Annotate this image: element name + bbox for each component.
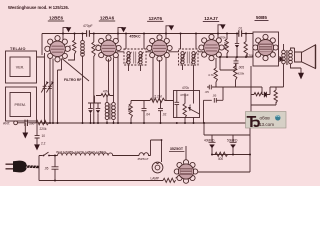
tube label 12AT6 (audio) <box>203 16 219 22</box>
electrolytic capacitor 50MFD <box>227 135 238 155</box>
resistor 470 feedback <box>274 87 277 105</box>
tube V4 audio <box>199 34 224 60</box>
label 455KC <box>129 35 141 39</box>
top B+ bus wire y=33.5 <box>42 33 253 35</box>
svg-text:TELAIO: TELAIO <box>10 47 26 51</box>
svg-text:Westinghouse mod. H 125/126.: Westinghouse mod. H 125/126. <box>8 5 69 10</box>
pushbutton block PREM <box>6 87 37 121</box>
resistor 47k osc <box>96 90 113 97</box>
svg-text:47k: 47k <box>103 90 109 94</box>
resistor 10M AVC <box>127 101 132 124</box>
svg-text:35Z5GT: 35Z5GT <box>170 147 184 151</box>
capacitor .02 <box>158 101 167 124</box>
diode plate cap <box>235 34 239 58</box>
padder capacitor 1 <box>88 103 93 123</box>
output tube box shield <box>253 32 279 66</box>
svg-text:50B5: 50B5 <box>256 15 267 20</box>
tuner block VER <box>10 57 30 77</box>
resistor lamp shunt <box>163 176 179 183</box>
svg-text:.005: .005 <box>238 66 244 70</box>
ground arrow under speaker <box>298 68 304 79</box>
capacitor .05 cathode bypass <box>205 85 212 94</box>
svg-text:10M: 10M <box>127 106 131 113</box>
tube label 12BA6 <box>99 16 115 22</box>
electrolytic capacitor 40MFD <box>204 135 216 155</box>
svg-text:470pF: 470pF <box>83 24 93 28</box>
capacitor .01 in top bus <box>238 27 243 37</box>
electrolytic rail top <box>204 123 250 135</box>
IF transformer 2 <box>179 49 199 65</box>
resistor 100k V4 screen <box>223 34 228 58</box>
filter resistor 400 <box>212 152 250 161</box>
tube label 12BE6 <box>48 16 64 22</box>
svg-text:обов: обов <box>260 116 271 121</box>
svg-text:200: 200 <box>29 122 34 126</box>
heater ballast winding <box>58 153 140 156</box>
capacitor 470pF in top bus <box>83 24 93 37</box>
wire V3 cathode drops <box>153 58 166 101</box>
oscillator coil <box>105 96 115 124</box>
capacitor .04 <box>142 101 151 124</box>
B minus vertical wire <box>249 127 251 172</box>
wire gang vertical left <box>44 53 46 123</box>
svg-text:820k: 820k <box>238 72 245 76</box>
svg-text:.05: .05 <box>205 90 210 94</box>
resistor 470k V4 plate <box>244 34 254 59</box>
B+ arrow at tube V4 <box>218 24 226 39</box>
wire V5 box to bus <box>250 66 252 112</box>
tube V3 12AT6 <box>147 35 172 61</box>
svg-text:455KC: 455KC <box>129 35 141 39</box>
svg-text:400: 400 <box>218 157 224 161</box>
svg-text:40MFD: 40MFD <box>204 138 215 142</box>
svg-text:ANT.: ANT. <box>3 122 10 126</box>
capacitor 470pF grid <box>175 91 189 118</box>
mains junction vertical <box>38 156 40 181</box>
svg-text:13.com: 13.com <box>259 122 274 127</box>
svg-text:.05: .05 <box>212 94 217 98</box>
resistor 4.7k plate V1 <box>68 34 76 61</box>
volume control box <box>174 86 200 118</box>
cathode rail wire y87 <box>212 87 262 95</box>
line capacitor .05 <box>44 156 59 181</box>
svg-text:PREM.: PREM. <box>15 103 26 107</box>
svg-text:2.2M: 2.2M <box>154 94 162 98</box>
rectifier heater wire <box>195 171 251 173</box>
wire heater to lamp <box>151 140 162 162</box>
svg-text:470pF: 470pF <box>180 93 189 97</box>
coupling capacitor .02 to OT <box>279 56 284 62</box>
svg-text:LAMP: LAMP <box>151 177 160 181</box>
svg-text:470k: 470k <box>219 36 226 40</box>
resistor 820k V5 grid <box>234 64 245 87</box>
B+ arrow at tube V3 <box>166 25 174 39</box>
wire V2 to IF1 <box>117 51 152 53</box>
capacitor .005 coupling <box>220 57 244 70</box>
svg-text:100k: 100k <box>223 42 227 49</box>
power switch <box>39 152 58 156</box>
antenna terminal ANT <box>3 121 18 126</box>
svg-text:220k: 220k <box>40 127 47 131</box>
svg-text:.02: .02 <box>162 113 167 117</box>
label FILTRO RF <box>64 78 81 82</box>
title: Westinghouse mod. H 125/126. <box>8 5 69 10</box>
svg-text:4.7k: 4.7k <box>208 73 214 77</box>
svg-text:.01: .01 <box>238 27 243 31</box>
svg-text:FILTRO RF: FILTRO RF <box>64 78 81 82</box>
wire to ground bus via y100 <box>204 87 224 123</box>
AVC line with resistor 2.2M <box>131 94 174 102</box>
oscillator padder line <box>88 96 101 104</box>
label 35Z5GT <box>169 147 184 152</box>
chassis box TELAIO <box>6 47 37 83</box>
IF2 risers <box>181 34 197 91</box>
svg-text:2.2: 2.2 <box>41 141 46 145</box>
svg-text:50MFD: 50MFD <box>227 138 238 142</box>
resistor 500k volume pot <box>183 94 192 124</box>
svg-text:35Z5GT: 35Z5GT <box>137 157 148 161</box>
svg-text:.05: .05 <box>44 166 49 170</box>
svg-text:VER.: VER. <box>16 66 24 70</box>
tuning gang link diagonal <box>62 59 89 82</box>
ground arrow left 2 <box>34 138 46 150</box>
wire gang vertical right <box>49 57 51 123</box>
IF transformer 1 455KC <box>124 49 146 65</box>
tube label 12AT6 <box>147 16 163 22</box>
capacitor 200pF antenna <box>25 120 35 126</box>
IF1 risers to B+ <box>126 34 144 72</box>
tube V2 12BA6 <box>96 35 121 61</box>
feedback line to output transformer <box>251 87 284 105</box>
capacitor .05 line filter <box>35 123 46 138</box>
main ground bus wire y=123 <box>18 122 248 124</box>
B+ arrow at tube V1 <box>63 27 71 41</box>
trimmer capacitor gang 1 <box>41 81 48 92</box>
svg-text:12BE6: 12BE6 <box>49 16 63 21</box>
loudspeaker <box>295 45 316 69</box>
trimmer capacitor gang 2 <box>46 81 53 92</box>
mains bottom rail <box>39 180 163 182</box>
tube V1 12BE6 <box>45 36 70 62</box>
ground arrow left 1 <box>22 123 28 139</box>
tone network resistor <box>251 93 264 96</box>
tube V5 50B5 <box>253 34 278 60</box>
resistor 100k osc grid <box>92 34 100 124</box>
RF choke coil <box>81 34 85 124</box>
svg-text:.04: .04 <box>146 113 151 117</box>
wire V4 output row <box>220 56 253 58</box>
tube label 50B5 <box>255 15 269 21</box>
watermark logo box <box>246 112 287 131</box>
tone network capacitor <box>264 87 270 97</box>
output transformer <box>282 44 301 87</box>
tube V6 35Z5GT rectifier <box>174 146 198 183</box>
svg-text:10: 10 <box>42 134 46 138</box>
wire V3 to IF2 <box>169 51 204 53</box>
pot wiper arrow <box>188 91 200 124</box>
pilot lamp <box>151 162 163 181</box>
svg-text:12BA6: 12BA6 <box>100 16 115 21</box>
resistor 4.7k V4 cathode <box>208 58 217 87</box>
B+ arrow at tube V2 <box>118 27 126 41</box>
padder capacitor 2 <box>96 103 101 123</box>
wire tuner to gang <box>37 34 45 58</box>
heater string label <box>56 150 106 154</box>
svg-text:470k: 470k <box>247 54 254 58</box>
svg-text:12AJ7: 12AJ7 <box>204 16 218 21</box>
svg-text:12AT6: 12AT6 <box>149 16 163 21</box>
mains cord <box>26 165 39 169</box>
capacitor .05 on ground link <box>212 94 217 103</box>
heater tap 35Z5GT winding <box>137 153 150 161</box>
wire V2 cathode drops <box>109 57 119 124</box>
mains plug <box>6 161 27 173</box>
label 470k grid <box>219 36 226 40</box>
resistor 220k antenna <box>36 120 49 130</box>
wire V1 cathode drops <box>53 59 62 124</box>
svg-text:470k: 470k <box>182 86 189 90</box>
